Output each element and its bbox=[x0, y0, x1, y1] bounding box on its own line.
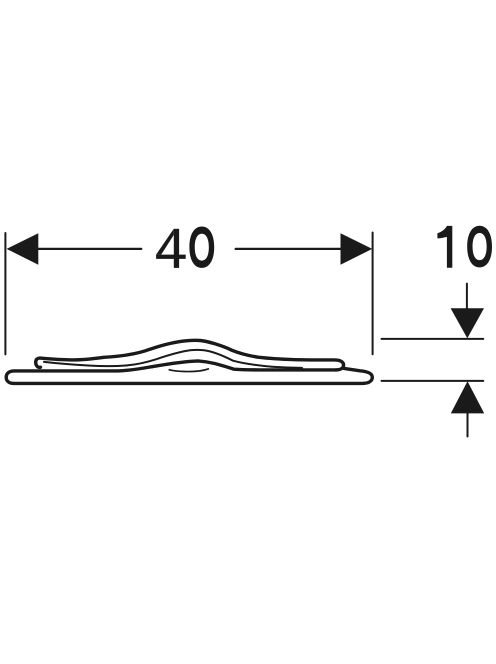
dimension line right segment bbox=[236, 248, 352, 250]
reference line upper (top of part) bbox=[382, 338, 484, 340]
label 10 digit 0 bbox=[467, 226, 492, 268]
extension line left bbox=[4, 233, 6, 354]
arrowhead left bbox=[7, 233, 39, 265]
leader line of down arrow bbox=[466, 284, 468, 313]
membrane top surface with left curl, dome and right end cap bbox=[36, 340, 344, 370]
label 40 digit 0 bbox=[189, 227, 214, 268]
label 10 digit 1 bbox=[437, 226, 452, 268]
dimension line left segment bbox=[24, 248, 141, 250]
arrowhead up bbox=[451, 381, 484, 413]
label 40 digit 4 bbox=[156, 229, 186, 268]
arrowhead down bbox=[451, 308, 484, 338]
leader line of up arrow bbox=[467, 412, 469, 437]
inner smile arc bbox=[169, 369, 208, 372]
reference line lower (bottom of part) bbox=[382, 380, 484, 382]
base plate outline with membrane underside bump bbox=[6, 361, 372, 384]
extension line right bbox=[372, 233, 374, 355]
arrowhead right bbox=[341, 233, 373, 265]
membrane inner thin line bbox=[44, 350, 302, 368]
